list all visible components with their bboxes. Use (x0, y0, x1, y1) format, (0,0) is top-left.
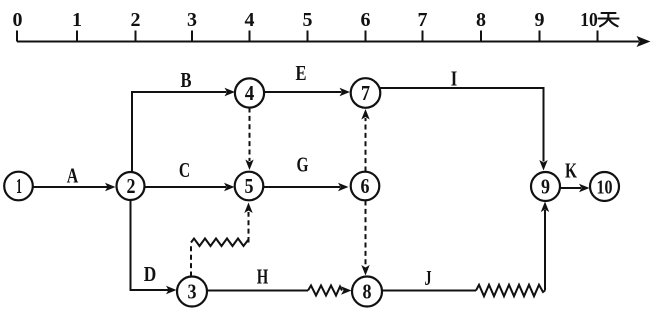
svg-text:B: B (181, 68, 192, 92)
svg-text:3: 3 (187, 9, 197, 31)
svg-text:3: 3 (188, 280, 197, 304)
node 4 (235, 78, 264, 107)
node 2 (117, 172, 145, 200)
svg-text:4: 4 (245, 9, 255, 31)
svg-text:C: C (179, 158, 190, 182)
svg-text:I: I (451, 67, 458, 91)
svg-text:G: G (297, 153, 309, 177)
tick 0 (16, 31, 18, 42)
svg-text:H: H (257, 264, 269, 288)
svg-text:5: 5 (245, 174, 254, 198)
svg-text:D: D (144, 262, 157, 286)
node 3 (177, 277, 207, 307)
tick 10 (597, 31, 599, 42)
tick 8 (480, 31, 482, 42)
time axis line (17, 41, 639, 43)
dummy arrow 6->7 (dashed) (365, 118, 367, 172)
tick 4 (249, 31, 251, 42)
wire: J vertical up into node 9 (544, 210, 546, 291)
svg-text:1: 1 (16, 174, 22, 198)
svg-text:7: 7 (418, 9, 428, 31)
svg-text:9: 9 (535, 9, 545, 31)
svg-text:E: E (296, 61, 307, 85)
node 1 (4, 172, 33, 201)
svg-text:0: 0 (13, 9, 23, 31)
svg-text:1: 1 (72, 9, 82, 31)
svg-text:9: 9 (541, 175, 550, 199)
arrowhead D into node 3 (166, 286, 177, 294)
wire: activity E arrow 4->7 (264, 91, 342, 93)
axis unit 天 (drawn strokes) (599, 13, 619, 26)
wire: activity G arrow 5->6 (264, 186, 341, 188)
svg-text:A: A (67, 164, 79, 188)
svg-text:K: K (565, 159, 577, 183)
tick 9 (539, 31, 541, 42)
tick 1 (76, 31, 78, 42)
svg-text:10: 10 (580, 9, 598, 31)
arrowhead B into node 4 (225, 88, 236, 96)
node 8 (352, 277, 382, 307)
wire: activity K arrow 9->10 (560, 187, 581, 189)
dummy 3->5: dashed rise from node 3 (190, 243, 192, 277)
tick 5 (307, 31, 309, 42)
svg-text:2: 2 (127, 174, 136, 198)
wire: activity B rise from node 2 (132, 92, 227, 173)
wire: activity H 3->8 with free-float wave (207, 290, 308, 292)
dummy arrow 6->8 (dashed) (365, 201, 367, 267)
node 5 (235, 172, 264, 201)
node 6 (351, 172, 380, 201)
wire: activity A arrow 1->2 (33, 186, 108, 188)
node 9 (531, 172, 560, 201)
wire: activity C arrow 2->5 (145, 186, 227, 188)
wire: activity J 8->9 with wave then up (382, 290, 476, 292)
tick 7 (422, 31, 424, 42)
time axis arrowhead (637, 36, 651, 47)
wavy float line on H (308, 286, 342, 296)
svg-text:8: 8 (476, 9, 486, 31)
tick 3 (191, 31, 193, 42)
wire: activity D drop from node 2 to node 3 (131, 201, 170, 291)
dummy 3->5: wavy float segment (191, 239, 249, 247)
dummy 3->5: dashed rise into node 5 (248, 212, 250, 242)
arrowhead I into node 9 (539, 160, 547, 171)
wavy float line on J (476, 285, 545, 296)
svg-text:6: 6 (361, 174, 370, 198)
svg-text:2: 2 (131, 9, 141, 31)
svg-text:6: 6 (361, 9, 371, 31)
arrowhead J into node 9 (541, 202, 549, 213)
node 10 (590, 172, 619, 201)
tick 2 (135, 31, 137, 42)
svg-text:4: 4 (245, 81, 255, 105)
svg-text:5: 5 (303, 9, 313, 31)
svg-text:7: 7 (361, 81, 370, 105)
svg-text:10: 10 (597, 177, 613, 199)
node 7 (351, 78, 381, 108)
dummy arrow 4->5 (dashed) (249, 108, 251, 162)
svg-text:8: 8 (363, 280, 372, 304)
tick 6 (365, 31, 367, 42)
svg-text:J: J (425, 266, 432, 290)
wire: activity I from node 7 across and down to node 9 (380, 88, 544, 162)
arrowhead H into node 8 (341, 286, 352, 294)
